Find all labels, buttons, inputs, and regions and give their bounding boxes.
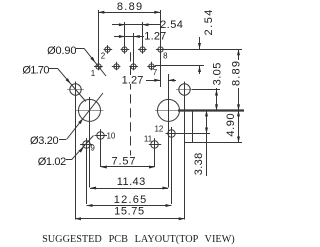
svg-text:8.89: 8.89: [231, 61, 243, 86]
svg-text:2.54: 2.54: [203, 10, 215, 36]
hole D3.20 right: [155, 98, 182, 188]
hole D1.70 left: [67, 82, 84, 220]
leader D3.20 to hole: [59, 139, 66, 141]
pad 2: [104, 45, 113, 54]
text 3.05 right rotated: [211, 61, 224, 88]
hole D1.70 right: [176, 82, 193, 220]
dimension 8.89 right: [238, 49, 240, 110]
wire ext pad4 up: [124, 22, 126, 46]
wire ext pad1 up: [98, 10, 100, 63]
svg-text:1: 1: [91, 69, 96, 78]
wire ext pad5 up: [133, 33, 135, 62]
svg-text:SUGGESTED PCB LAYOUT(TOP VIEW): SUGGESTED PCB LAYOUT(TOP VIEW): [42, 233, 235, 245]
dimension 4.90 right: [238, 110, 240, 143]
hole D3.20 left: [76, 97, 104, 188]
wire ext pad11 down: [154, 148, 156, 167]
pad 5: [129, 62, 138, 71]
wire ext pad6 up: [142, 22, 144, 46]
svg-text:1.27: 1.27: [122, 74, 144, 86]
thick datum line right: [178, 109, 244, 111]
svg-text:12: 12: [154, 125, 163, 134]
svg-text:15.75: 15.75: [114, 206, 144, 218]
wire ext pad12 row right: [176, 133, 210, 135]
text 8.89 right rotated: [230, 60, 243, 88]
svg-text:1.27: 1.27: [144, 31, 166, 43]
dimension 1.27 top: [114, 36, 144, 38]
dimension 3.05 right: [216, 62, 218, 110]
pad 9: [80, 138, 92, 150]
wire ext pad11 row right: [184, 142, 242, 144]
leader D1.70 to hole: [49, 68, 58, 70]
svg-text:2.54: 2.54: [160, 19, 183, 31]
wire ext pad8 up: [160, 10, 162, 46]
svg-text:11.43: 11.43: [117, 176, 145, 188]
wire ext right vertical: [192, 111, 194, 142]
svg-text:12.65: 12.65: [114, 194, 147, 206]
leader D0.90 to pad1: [76, 48, 84, 50]
svg-text:9: 9: [90, 144, 95, 153]
svg-text:7.57: 7.57: [112, 155, 136, 167]
dimension 7.57 bottom: [101, 166, 155, 168]
dimension 8.89 top: [98, 12, 160, 14]
wire ext pad8 down: [160, 52, 162, 87]
svg-text:Ø1.02: Ø1.02: [38, 156, 67, 168]
centerline (vertical dashed): [130, 52, 132, 159]
pad 10: [95, 129, 107, 141]
dimension 15.75 bottom: [75, 218, 185, 220]
pad 3: [112, 62, 121, 71]
wire ext pad8 row right: [164, 49, 242, 51]
svg-text:8.89: 8.89: [117, 1, 142, 13]
dimension 11.43 bottom: [90, 188, 168, 190]
dimension 2.54 top: [112, 24, 160, 26]
svg-text:4.90: 4.90: [225, 113, 237, 136]
dimension 12.65 bottom: [87, 205, 172, 207]
svg-text:10: 10: [106, 132, 115, 141]
svg-text:Ø0.90: Ø0.90: [47, 45, 76, 57]
wire ext pad12 down: [171, 137, 173, 204]
text 7.57: [106, 155, 142, 167]
wire ext hole centerline up: [168, 74, 170, 98]
svg-text:2: 2: [101, 52, 106, 61]
svg-text:3.38: 3.38: [193, 153, 205, 176]
svg-text:Ø1.70: Ø1.70: [22, 64, 49, 76]
wire ext pad10 down: [100, 139, 102, 167]
leader D1.02 to pad9: [66, 159, 72, 161]
dimension 1.27 lower: [146, 80, 160, 82]
pad 7: [147, 62, 156, 71]
pad 4: [121, 45, 130, 54]
svg-text:3.05: 3.05: [212, 63, 224, 86]
svg-text:Ø3.20: Ø3.20: [30, 135, 59, 147]
dimension 2.54 right: [199, 37, 201, 49]
svg-text:8: 8: [163, 51, 168, 60]
text 1.27 lower: [120, 74, 145, 86]
svg-text:7: 7: [153, 68, 158, 77]
wire ext pad9 down: [86, 148, 88, 204]
pad 8: [156, 45, 165, 54]
dimension 3.38 right: [206, 110, 208, 176]
wire ext pad7 row right: [155, 65, 204, 67]
pad 6: [138, 45, 147, 54]
pad 11: [149, 138, 161, 150]
wire ext hole1.70 right to 3.05: [192, 89, 220, 91]
pad 12: [166, 127, 178, 139]
svg-text:11: 11: [144, 134, 153, 143]
pad 1: [94, 62, 103, 71]
